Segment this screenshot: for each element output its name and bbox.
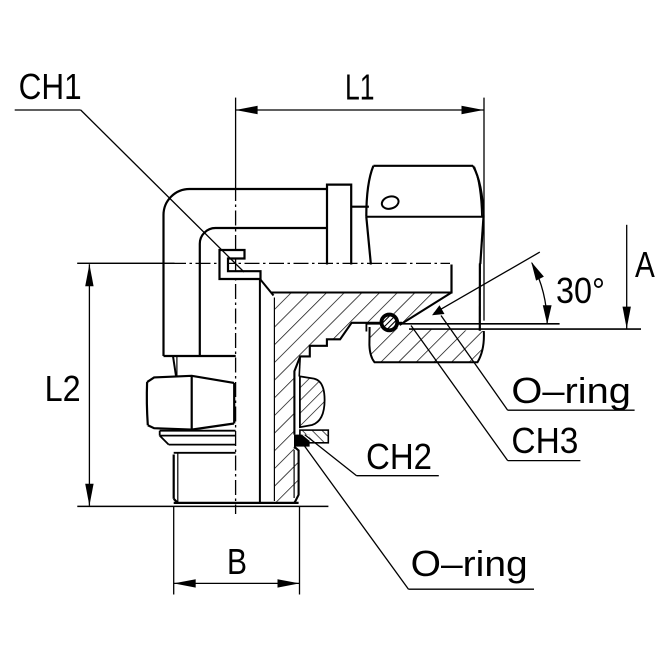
svg-text:CH3: CH3 (511, 420, 578, 461)
CH2 underline (357, 475, 439, 477)
30deg cone leader arrowhead (430, 305, 445, 319)
swivel nut lower wall section (hatched) (369, 327, 484, 362)
vertical bore wall line (259, 279, 261, 503)
nut right chamfer face line (475, 167, 482, 217)
L1 dimension (236, 98, 484, 321)
30deg cone line (434, 252, 540, 313)
30deg angular arc (532, 263, 547, 324)
O-ring leader (port seal) (303, 443, 409, 589)
CH1 underline (15, 109, 81, 111)
O-ring underline (cone seal) (508, 409, 635, 411)
body section outline (272, 293, 452, 503)
threaded stud left edge (174, 453, 178, 503)
horizontal centerline (77, 262, 450, 264)
washer section lower (hatched opposite) (300, 430, 328, 443)
svg-text:CH1: CH1 (19, 66, 82, 107)
shoulder chamfer second line (299, 357, 300, 377)
male stud end face (450, 265, 452, 294)
svg-text:O–ring: O–ring (411, 543, 528, 584)
svg-text:L2: L2 (45, 368, 81, 409)
port O-ring hidden lines left (169, 445, 236, 453)
CH2 leader (305, 435, 357, 476)
svg-text:CH2: CH2 (366, 436, 432, 477)
bore countersink chamfer (260, 279, 273, 295)
vertical centerline (235, 98, 237, 514)
svg-text:A: A (635, 244, 655, 285)
O-ring underline (port seal) (409, 588, 535, 590)
port face line (77, 505, 328, 507)
O-ring leader (cone seal) (441, 316, 508, 411)
swivel nut outline (366, 166, 483, 331)
elbow body section (hatched L-shape) (272, 293, 452, 503)
stud bottom face (174, 502, 299, 504)
L2 dimension (77, 263, 174, 506)
A dimension (623, 225, 631, 329)
svg-text:O–ring: O–ring (511, 370, 631, 411)
internal thread crest line (vertical bore) (273, 298, 275, 502)
elbow neck bottom line (164, 355, 236, 357)
locknut section (hatched sliver) (300, 376, 325, 427)
O-ring (cone seal) hatched circle (376, 310, 402, 338)
CH1 leader (81, 110, 244, 272)
retaining clip (CH1 target) (220, 250, 261, 279)
elbow outer contour (164, 189, 328, 356)
locknut hex CH2 outline (147, 376, 234, 430)
thread root line right (293, 450, 295, 498)
O-ring groove wall (365, 323, 367, 332)
cone seat line 30deg (366, 323, 559, 325)
port O-ring section (black square) (294, 435, 310, 447)
svg-text:B: B (227, 541, 247, 582)
CH3 leader (411, 326, 508, 461)
stud stub between neck and hex (173, 357, 177, 377)
B dimension (174, 507, 300, 595)
washer under hex (160, 431, 236, 445)
nut chamfer ellipse (380, 195, 400, 211)
stud step before swivel nut (351, 206, 369, 208)
top washer ring outline (327, 185, 351, 265)
elbow inner contour (200, 228, 327, 356)
svg-text:L1: L1 (345, 66, 375, 107)
CH3 underline (508, 460, 581, 462)
svg-text:30°: 30° (556, 270, 605, 311)
nut bore line / A extension (409, 328, 641, 330)
